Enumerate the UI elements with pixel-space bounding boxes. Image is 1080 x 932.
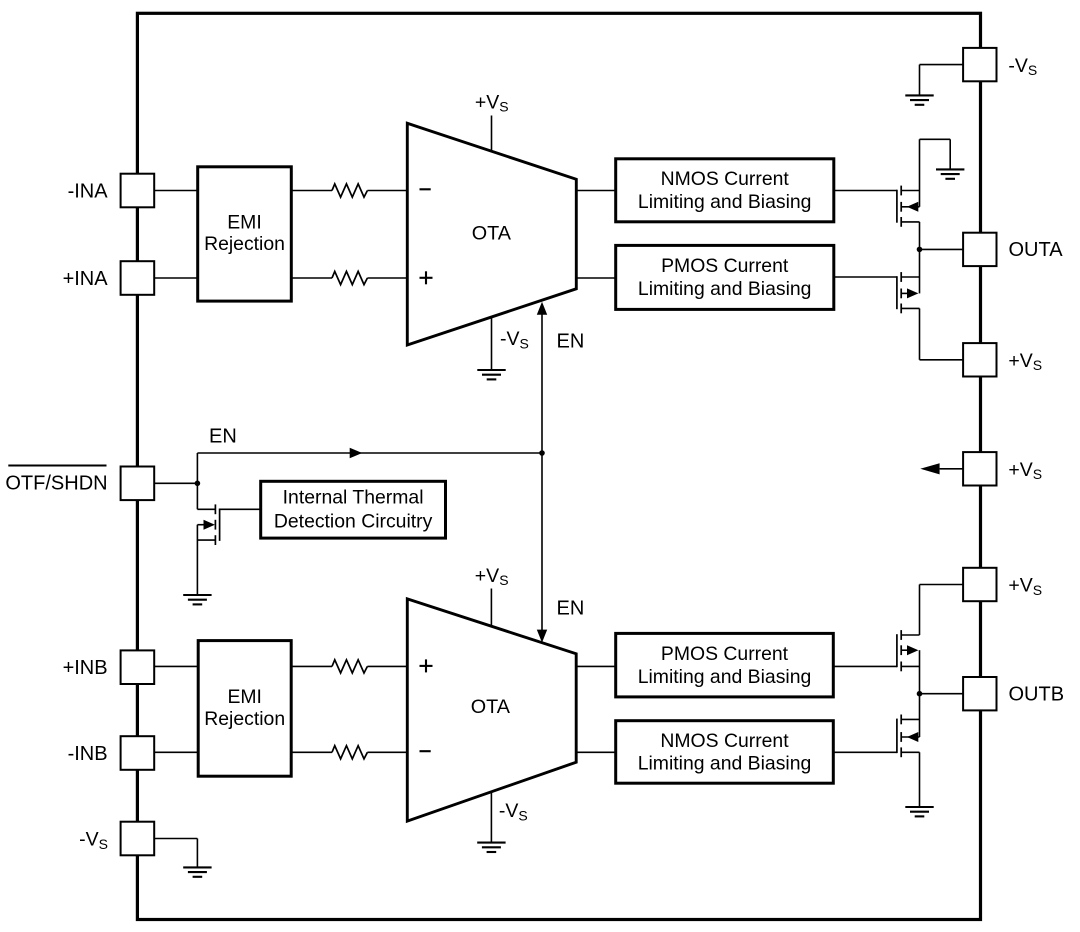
transistor Q4 gate bar	[896, 719, 898, 754]
block Internal Thermal Detection Circuitry	[261, 481, 446, 538]
transistor Q3 body arrow	[901, 649, 907, 651]
wire Q5 gate to thermal block	[220, 508, 261, 510]
svg-text:Detection Circuitry: Detection Circuitry	[274, 510, 433, 532]
EN vertical wire	[541, 306, 543, 640]
transistor Q1 gate bar	[896, 190, 898, 223]
transistor Q4 bottom lead	[901, 751, 919, 753]
Q2 drain net from OUTA node	[919, 249, 921, 293]
wire +VS middle pin stub	[940, 468, 964, 470]
transistor Q3 gate bar	[896, 634, 898, 667]
transistor Q5 gate bar	[219, 509, 221, 541]
svg-text:PMOS Current: PMOS Current	[661, 643, 789, 665]
resistor R2	[332, 271, 367, 284]
wire -VS pin to ground	[154, 838, 197, 840]
svg-text:OUTA: OUTA	[1009, 239, 1064, 261]
wire OUTB node to OUTB pin	[920, 693, 964, 695]
transistor Q5 source lead	[197, 539, 215, 541]
wire -INA pin to EMI Rejection A	[154, 190, 197, 192]
wire +INB pin to EMI Rejection B	[154, 665, 198, 667]
svg-text:EMI: EMI	[227, 211, 261, 233]
wire OTF/SHDN pin to node	[154, 482, 197, 484]
wire OUTA node to OUTA pin	[920, 248, 964, 250]
OTA B noninverting input plus sign	[420, 665, 433, 667]
ground at Q5 source	[183, 594, 211, 596]
block NMOS Current Limiting and Biasing B	[616, 721, 834, 784]
pin square -VS	[121, 822, 155, 856]
wire R3 to OTA B noninverting input	[367, 665, 407, 667]
pin square -INA	[121, 174, 155, 208]
transistor Q4 body arrow	[901, 736, 919, 738]
svg-text:Limiting and Biasing: Limiting and Biasing	[638, 753, 812, 775]
svg-text:OTA: OTA	[472, 222, 512, 244]
overline for OTF/SHDN	[8, 465, 106, 467]
transistor Q2 body arrow	[901, 292, 907, 294]
wire OTA B output to PMOS block B	[576, 665, 616, 667]
Q2 source net down	[919, 308, 921, 359]
svg-text:NMOS Current: NMOS Current	[661, 168, 790, 190]
pin square OUTB right	[963, 677, 996, 710]
wire NMOS block A to Q1 gate	[834, 190, 897, 192]
block PMOS Current Limiting and Biasing B	[616, 633, 834, 697]
op-amp OTA B body	[407, 599, 576, 821]
wire node down to Q5 drain	[196, 483, 198, 509]
resistor R3	[332, 660, 367, 673]
pin square -INB	[121, 736, 155, 770]
pin square +VSmid right	[963, 452, 996, 485]
svg-text:PMOS Current: PMOS Current	[661, 255, 789, 277]
pin square OTF/SHDN	[121, 467, 155, 501]
svg-text:EN: EN	[209, 426, 237, 448]
wire EMI B to resistor R4	[291, 751, 332, 753]
block PMOS Current Limiting and Biasing A	[616, 245, 834, 309]
block NMOS Current Limiting and Biasing A	[616, 159, 834, 222]
OTA B -VS supply stub	[490, 792, 492, 843]
Q1 drain net up	[919, 139, 921, 207]
wire OTA A output to PMOS block A	[576, 277, 615, 279]
wire node up to EN line	[196, 453, 198, 483]
EN arrowhead into OTA A	[537, 302, 547, 315]
ground below OTA A	[477, 369, 505, 371]
wire +INA pin to EMI Rejection A	[154, 277, 197, 279]
svg-text:Internal Thermal: Internal Thermal	[283, 487, 424, 509]
svg-text:EMI: EMI	[227, 686, 261, 708]
block EMI Rejection A	[198, 167, 292, 301]
OTA B inverting input minus sign	[420, 750, 431, 752]
svg-text:-INB: -INB	[68, 743, 108, 765]
wire EMI B to resistor R3	[291, 665, 332, 667]
node OTF/SHDN junction dot	[195, 481, 201, 487]
pin square +VSA right	[963, 343, 996, 376]
wire R1 to OTA A inverting input	[367, 190, 407, 192]
svg-text:+INB: +INB	[63, 657, 108, 679]
transistor Q5 channel segments	[214, 504, 216, 514]
Q3 drain net to OUTB node	[919, 650, 921, 694]
ground at Q1 drain	[936, 168, 964, 170]
svg-text:Limiting and Biasing: Limiting and Biasing	[638, 191, 812, 213]
Q2 source net to +VS pin	[920, 359, 964, 361]
node OUTB junction dot	[917, 691, 923, 697]
block EMI Rejection B	[198, 641, 291, 777]
svg-text:Rejection: Rejection	[204, 233, 285, 255]
OTA A -VS supply stub	[491, 317, 493, 370]
pin square -VS right	[963, 48, 996, 81]
ground below OTA B	[477, 842, 505, 844]
wire EMI A to resistor R2	[291, 277, 332, 279]
pin square +VSB right	[963, 568, 996, 601]
transistor Q3 top lead	[901, 634, 919, 636]
Q4 source net down to ground	[919, 752, 921, 807]
OTA A inverting input minus sign	[420, 188, 431, 190]
pin square +INA	[121, 261, 155, 295]
ground at top -VS pin	[905, 94, 933, 96]
svg-text:Limiting and Biasing: Limiting and Biasing	[638, 666, 812, 688]
transistor Q4 channel segments	[900, 715, 902, 725]
resistor R4	[332, 746, 367, 759]
OTA B +VS supply stub	[490, 589, 492, 627]
transistor Q3 channel segments	[900, 630, 902, 640]
wire NMOS block B to Q4 gate	[833, 751, 897, 753]
pin square OUTA right	[963, 233, 996, 266]
OTA A noninverting input plus sign	[420, 277, 433, 279]
svg-text:+INA: +INA	[63, 268, 109, 290]
Q5 source net to ground	[196, 525, 198, 595]
op-amp OTA A body	[407, 123, 576, 345]
wire -INB pin to EMI Rejection B	[154, 751, 198, 753]
svg-text:OTF/SHDN: OTF/SHDN	[5, 472, 107, 494]
transistor Q4 top lead	[901, 718, 919, 720]
svg-text:NMOS Current: NMOS Current	[660, 730, 789, 752]
node EN junction dot	[539, 450, 545, 456]
arrowhead at +VS middle pin	[920, 463, 939, 474]
wire OTA B output to NMOS block B	[576, 751, 616, 753]
resistor R1	[332, 184, 367, 197]
wire R4 to OTA B inverting input	[367, 751, 407, 753]
Q1 drain net down to ground	[949, 139, 951, 169]
transistor Q3 bottom lead	[901, 665, 919, 667]
svg-text:OUTB: OUTB	[1009, 684, 1065, 706]
pin square +INB	[121, 650, 155, 684]
Q3 source net up	[919, 585, 921, 636]
node OUTA junction dot	[917, 247, 923, 253]
wire OTA A output to NMOS block A	[576, 190, 615, 192]
ground at Q4 source	[905, 806, 933, 808]
svg-text:-INA: -INA	[68, 180, 109, 202]
Q3 source net to +VS pin	[920, 584, 964, 586]
wire -VS pin to ground	[920, 64, 964, 66]
device outline box	[137, 13, 980, 919]
transistor Q1 channel segments	[900, 186, 902, 196]
ground at bottom-left -VS pin	[183, 866, 211, 868]
transistor Q2 top lead	[901, 276, 919, 278]
transistor Q1 bottom lead	[901, 221, 919, 223]
svg-text:Rejection: Rejection	[204, 708, 285, 730]
EN horizontal wire	[197, 452, 542, 454]
transistor Q1 body arrow	[901, 206, 919, 208]
wire R2 to OTA A noninverting input	[367, 277, 407, 279]
svg-text:Limiting and Biasing: Limiting and Biasing	[638, 278, 812, 300]
wire PMOS block B to Q3 gate	[833, 665, 897, 667]
transistor Q1 top lead	[901, 190, 919, 192]
transistor Q5 drain lead	[197, 508, 215, 510]
wire EMI A to resistor R1	[291, 190, 332, 192]
transistor Q2 gate bar	[896, 276, 898, 309]
svg-text:EN: EN	[557, 598, 585, 620]
Q1 source net to OUTA node	[919, 222, 921, 250]
transistor Q2 channel segments	[900, 272, 902, 282]
OTA A +VS supply stub	[491, 116, 493, 152]
Q1 drain net horizontal	[920, 138, 951, 140]
svg-text:OTA: OTA	[471, 696, 511, 718]
transistor Q5 body arrow	[197, 524, 203, 526]
wire PMOS block A to Q2 gate	[834, 276, 897, 278]
svg-text:EN: EN	[557, 330, 585, 352]
EN arrowhead into OTA B	[537, 630, 547, 643]
transistor Q2 bottom lead	[901, 307, 919, 309]
EN wire arrowhead	[350, 448, 363, 459]
Q4 drain net from OUTB node	[919, 694, 921, 737]
